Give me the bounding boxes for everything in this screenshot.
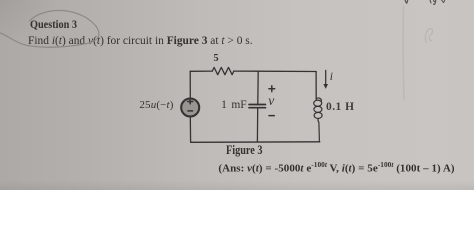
capacitor voltage v [268,94,274,108]
wire: left branch lower (source minus terminal down to bottom-left corner) [189,116,191,142]
voltage source V1 25u(-t): circle body [181,99,199,117]
heading: Question 3 [30,18,77,30]
capacitor polarity minus sign [269,115,274,117]
inductor value label 0.1 H [326,101,354,113]
current arrow i (pointing down) beside top-right corner [325,70,327,84]
handwriting fragment at top edge 1 [405,0,408,3]
faint pencil smudge (upper right) [425,28,432,42]
source value label 25u(-t) [139,100,173,111]
inductor L1 (0.1 H): coil entry hook [316,98,321,101]
inductor L1 (0.1 H): coil loop 1 [314,100,322,106]
voltage source minus terminal mark [188,110,193,112]
problem statement line [28,34,253,46]
wire: middle branch lower (capacitor bottom plate down to bottom node) [256,108,258,142]
inductor L1 (0.1 H): coil loop 3 [314,112,322,118]
wire: bottom segment (bottom-left corner to bottom-right corner) [191,141,320,144]
wire: top-right segment (resistor to top-right corner) [234,70,316,72]
resistor value label 5 [214,54,219,64]
wire: top-left segment (top-left corner to resistor) [190,70,212,72]
faint paper crease (right area) [402,6,405,100]
inductor L1 (0.1 H): coil exit curl [318,118,320,142]
answer line [218,161,454,175]
handwriting fragment at top edge 3 [442,0,445,3]
inductor L1 (0.1 H): coil loop 2 [314,106,322,112]
capacitor value label 1 mF [221,100,247,112]
capacitor C1 (1 mF): bottom plate [249,107,266,109]
current arrow i: arrowhead [323,84,328,89]
resistor R1 value 5: zigzag body [212,67,234,74]
wire: left branch upper (top-left corner down to source plus terminal) [189,71,191,98]
wire: right branch upper (top-right corner down to inductor) [315,72,317,100]
inductor current label i [330,72,333,84]
capacitor C1 (1 mF): top plate [249,104,266,106]
pen annotation loop around "Find i(t) and v(t)" [0,10,99,47]
wire: middle branch upper (top node down to capacitor top plate) [257,71,259,104]
capacitor polarity plus sign [269,86,275,92]
voltage source plus terminal mark [188,99,193,104]
handwriting fragment at top edge 2 [430,0,436,4]
figure caption [226,144,263,157]
